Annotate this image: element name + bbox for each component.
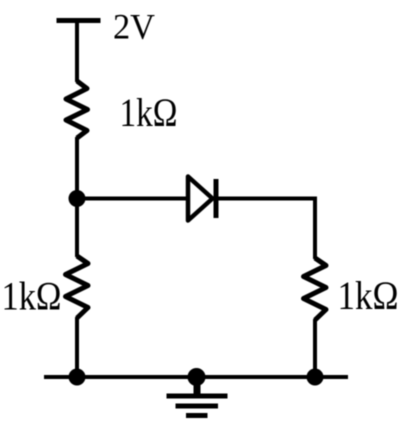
- ground symbol bar 1: [167, 394, 228, 399]
- wire right vertical down to R3: [313, 199, 317, 260]
- bottom ground bus wire: [44, 375, 348, 379]
- resistor R2 1kOhm (bottom left): [66, 256, 89, 318]
- svg-text:1kΩ: 1kΩ: [2, 274, 62, 319]
- bottom left junction dot: [69, 369, 86, 386]
- ground junction dot: [188, 368, 206, 386]
- node A junction dot: [69, 190, 86, 207]
- ground symbol bar 3: [186, 413, 208, 418]
- svg-text:1kΩ: 1kΩ: [338, 273, 399, 318]
- power supply terminal bar (2V): [57, 18, 101, 23]
- resistor R1 1kOhm (top left): [66, 81, 88, 138]
- bottom right junction dot: [307, 369, 324, 386]
- wire from diode cathode to right corner: [216, 197, 317, 201]
- wire from R1 down to node A: [75, 137, 79, 199]
- wire from node A down to R2: [75, 199, 79, 258]
- svg-text:2V: 2V: [113, 7, 155, 47]
- wire from R2 to bottom left node: [75, 317, 79, 377]
- ground stub wire: [194, 377, 201, 394]
- wire from supply bar down to R1: [75, 21, 79, 83]
- diode D1 cathode bar: [214, 179, 219, 218]
- ground symbol bar 2: [176, 404, 219, 409]
- wire from R3 to bottom right node: [313, 319, 317, 377]
- diode D1 triangle (anode): [188, 177, 213, 221]
- svg-text:1kΩ: 1kΩ: [120, 90, 178, 135]
- wire from node A to diode anode: [77, 197, 188, 201]
- resistor R3 1kOhm (right): [304, 258, 327, 320]
